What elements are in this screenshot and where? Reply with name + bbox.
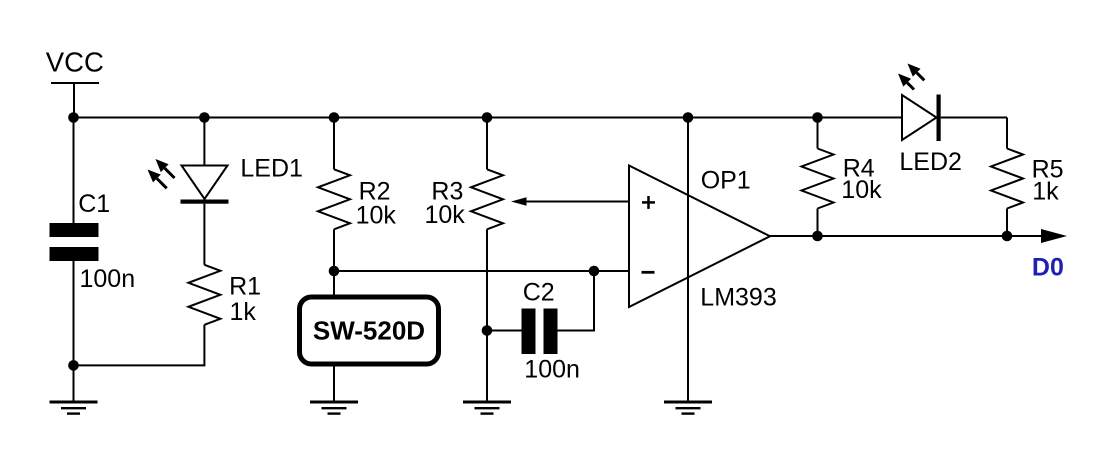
LED2 emission arrows — [898, 64, 924, 90]
svg-text:SW-520D: SW-520D — [313, 315, 425, 345]
svg-text:C2: C2 — [523, 279, 555, 307]
svg-text:LED1: LED1 — [240, 155, 303, 183]
ground (SW-520D) — [310, 402, 358, 414]
resistor R2 — [318, 118, 396, 272]
resistor R4 — [802, 118, 883, 237]
op-amp U1 OP1 LM393 — [629, 166, 777, 312]
capacitor C2 — [487, 271, 594, 384]
ground (OP1) — [664, 402, 712, 414]
op-amp OP1 power wire — [687, 118, 689, 403]
ground (C1) — [50, 365, 98, 413]
junction R2/SW-520D — [329, 266, 340, 277]
svg-text:D0: D0 — [1032, 254, 1064, 282]
junction rail at OP1 power — [683, 112, 694, 123]
ground (R3) — [463, 402, 511, 414]
wire bottom-left (C1/R1 to ground node) — [74, 325, 205, 366]
potentiometer R3 — [425, 118, 504, 403]
junction C2 right branch — [589, 266, 600, 277]
R3 wiper arrow / wire to non-inverting input — [511, 197, 629, 206]
junction C1 bottom — [68, 360, 79, 371]
node VCC — [46, 47, 104, 118]
LED LED1 — [181, 118, 303, 265]
junction rail at LED1 — [199, 112, 210, 123]
tilt switch SW-520D — [300, 271, 439, 402]
svg-text:C1: C1 — [78, 190, 110, 218]
resistor R5 — [991, 118, 1064, 237]
junction rail at R4 — [812, 112, 823, 123]
junction output at R4 — [812, 231, 823, 242]
svg-text:LM393: LM393 — [700, 284, 776, 312]
wire output net — [770, 235, 1042, 237]
capacitor C1 — [50, 118, 136, 366]
junction rail at R2 — [329, 112, 340, 123]
svg-text:1k: 1k — [1032, 178, 1059, 206]
svg-text:100n: 100n — [524, 356, 580, 384]
LED LED2 — [899, 95, 1007, 177]
svg-text:OP1: OP1 — [701, 167, 751, 195]
svg-text:10k: 10k — [425, 201, 466, 229]
junction C2/R3 ground branch — [482, 325, 493, 336]
svg-text:100n: 100n — [80, 265, 136, 293]
svg-text:VCC: VCC — [46, 47, 104, 78]
svg-text:R1: R1 — [229, 272, 261, 300]
resistor R1 — [188, 265, 261, 326]
LED1 emission arrows — [148, 159, 175, 188]
output arrow D0 — [1032, 229, 1067, 282]
wire main VCC rail — [74, 117, 903, 119]
junction output at R5 — [1002, 231, 1013, 242]
junction rail at R3 — [482, 112, 493, 123]
svg-text:LED2: LED2 — [899, 148, 962, 176]
wire inverting input net — [334, 270, 629, 272]
junction rail at C1 — [68, 112, 79, 123]
svg-text:1k: 1k — [230, 298, 257, 326]
svg-text:10k: 10k — [356, 201, 397, 229]
svg-text:10k: 10k — [841, 176, 882, 204]
